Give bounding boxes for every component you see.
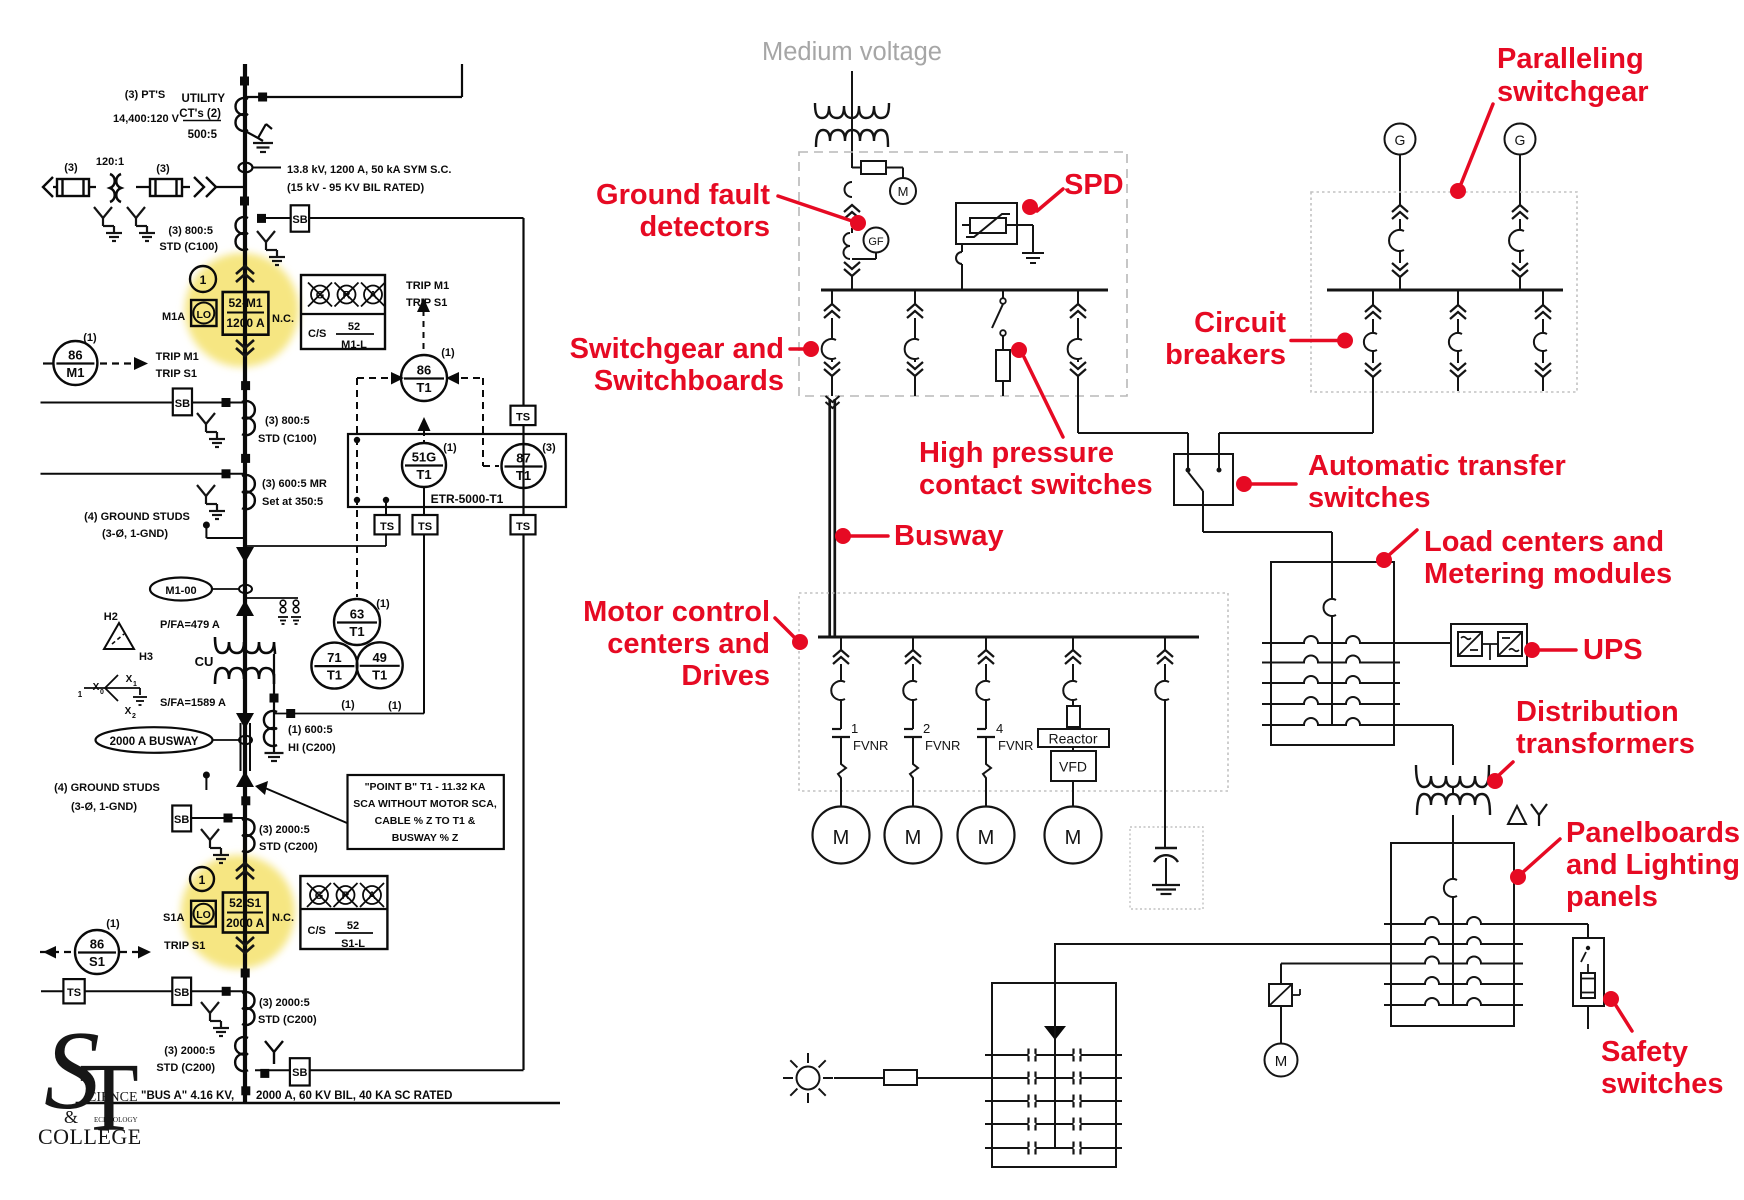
svg-text:0: 0 <box>100 689 104 696</box>
svg-text:T1: T1 <box>327 668 342 683</box>
svg-text:1: 1 <box>200 273 207 287</box>
svg-text:Busway: Busway <box>894 520 1004 552</box>
svg-text:R: R <box>343 290 351 302</box>
svg-text:4: 4 <box>996 721 1003 736</box>
svg-text:TS: TS <box>380 521 394 533</box>
svg-text:(1): (1) <box>443 442 457 454</box>
svg-text:Set at 350:5: Set at 350:5 <box>262 496 323 508</box>
svg-text:63: 63 <box>350 607 364 622</box>
svg-text:GF: GF <box>868 236 884 248</box>
svg-text:M1-L: M1-L <box>341 339 367 351</box>
svg-text:panels: panels <box>1566 881 1658 913</box>
svg-text:52: 52 <box>347 920 359 932</box>
svg-text:1: 1 <box>199 873 206 887</box>
svg-text:S1A: S1A <box>163 912 184 924</box>
svg-text:M: M <box>1065 827 1082 849</box>
svg-text:2000 A BUSWAY: 2000 A BUSWAY <box>110 736 199 748</box>
svg-text:M: M <box>978 827 995 849</box>
svg-text:Metering modules: Metering modules <box>1424 558 1672 590</box>
svg-text:Ground fault: Ground fault <box>596 179 770 211</box>
svg-text:87: 87 <box>516 451 530 466</box>
svg-text:Motor control: Motor control <box>583 596 770 628</box>
svg-text:(3) 2000:5: (3) 2000:5 <box>259 997 310 1009</box>
svg-text:(3): (3) <box>64 162 78 174</box>
svg-text:M1: M1 <box>66 365 84 380</box>
svg-text:(3) 800:5: (3) 800:5 <box>265 415 310 427</box>
svg-text:ECHNOLOGY: ECHNOLOGY <box>94 1116 138 1124</box>
svg-text:1: 1 <box>133 681 137 688</box>
svg-text:LO: LO <box>197 309 212 321</box>
svg-text:Paralleling: Paralleling <box>1497 43 1644 75</box>
svg-text:ETR-5000-T1: ETR-5000-T1 <box>431 492 504 506</box>
svg-text:Reactor: Reactor <box>1048 731 1097 747</box>
svg-text:M1-00: M1-00 <box>165 585 196 597</box>
svg-text:(3) 2000:5: (3) 2000:5 <box>164 1045 215 1057</box>
svg-text:SCA WITHOUT MOTOR SCA,: SCA WITHOUT MOTOR SCA, <box>353 798 497 810</box>
svg-text:(3): (3) <box>156 163 170 175</box>
svg-text:Medium voltage: Medium voltage <box>762 38 942 66</box>
svg-text:UTILITY: UTILITY <box>182 93 226 105</box>
svg-text:High pressure: High pressure <box>919 437 1114 469</box>
svg-text:T1: T1 <box>372 667 387 682</box>
svg-text:Load centers and: Load centers and <box>1424 526 1664 558</box>
svg-text:71: 71 <box>327 650 341 665</box>
svg-text:TRIP M1: TRIP M1 <box>406 280 449 292</box>
svg-text:(3-Ø, 1-GND): (3-Ø, 1-GND) <box>71 801 137 813</box>
svg-text:Switchboards: Switchboards <box>594 365 784 397</box>
svg-text:(3-Ø, 1-GND): (3-Ø, 1-GND) <box>102 528 168 540</box>
svg-text:switches: switches <box>1308 482 1431 514</box>
svg-text:CABLE % Z TO T1 &: CABLE % Z TO T1 & <box>375 815 476 827</box>
svg-text:2: 2 <box>923 721 930 736</box>
svg-text:1: 1 <box>78 690 83 699</box>
svg-text:P/FA=479 A: P/FA=479 A <box>160 619 220 631</box>
svg-text:51G: 51G <box>412 450 437 465</box>
svg-text:FVNR: FVNR <box>853 738 888 753</box>
svg-text:SB: SB <box>174 814 189 826</box>
svg-text:STD (C200): STD (C200) <box>156 1062 215 1074</box>
svg-text:X: X <box>126 674 133 685</box>
svg-text:M: M <box>905 827 922 849</box>
svg-text:Safety: Safety <box>1601 1036 1688 1068</box>
svg-text:1: 1 <box>851 721 858 736</box>
svg-text:500:5: 500:5 <box>188 129 218 141</box>
svg-text:S1-L: S1-L <box>341 938 365 950</box>
svg-text:transformers: transformers <box>1516 728 1695 760</box>
svg-text:TRIP S1: TRIP S1 <box>156 368 197 380</box>
svg-text:G: G <box>316 290 325 302</box>
svg-text:X: X <box>125 706 132 717</box>
svg-text:52: 52 <box>348 321 360 333</box>
svg-text:T1: T1 <box>416 467 431 482</box>
svg-text:H2: H2 <box>104 611 118 623</box>
svg-text:M: M <box>833 827 850 849</box>
svg-text:N.C.: N.C. <box>272 313 294 325</box>
svg-text:86: 86 <box>417 363 431 378</box>
svg-text:C/S: C/S <box>308 328 326 340</box>
svg-text:SPD: SPD <box>1064 169 1124 201</box>
svg-text:S/FA=1589 A: S/FA=1589 A <box>160 697 226 709</box>
svg-text:(15 kV - 95 KV BIL RATED): (15 kV - 95 KV BIL RATED) <box>287 182 424 194</box>
svg-text:A: A <box>369 290 377 302</box>
svg-text:2000 A: 2000 A <box>226 916 265 930</box>
svg-text:HI (C200): HI (C200) <box>288 742 336 754</box>
svg-text:TS: TS <box>67 987 81 999</box>
svg-text:G: G <box>315 890 324 902</box>
svg-text:(1): (1) <box>106 918 120 930</box>
svg-text:CIENCE: CIENCE <box>87 1090 138 1105</box>
svg-text:Distribution: Distribution <box>1516 696 1679 728</box>
svg-text:Circuit: Circuit <box>1194 307 1286 339</box>
svg-text:A: A <box>368 890 376 902</box>
svg-text:SB: SB <box>175 398 190 410</box>
svg-text:14,400:120 V: 14,400:120 V <box>113 113 180 125</box>
svg-text:TS: TS <box>418 521 432 533</box>
svg-text:(4) GROUND STUDS: (4) GROUND STUDS <box>84 511 190 523</box>
svg-text:(1): (1) <box>388 700 402 712</box>
svg-text:switches: switches <box>1601 1068 1724 1100</box>
svg-text:N.C.: N.C. <box>272 912 294 924</box>
svg-text:M: M <box>898 184 909 199</box>
svg-text:STD (C100): STD (C100) <box>159 241 218 253</box>
svg-text:UPS: UPS <box>1583 634 1643 666</box>
svg-text:TRIP M1: TRIP M1 <box>156 351 199 363</box>
svg-text:M: M <box>1275 1053 1288 1070</box>
svg-text:(3) 600:5 MR: (3) 600:5 MR <box>262 478 327 490</box>
svg-text:86: 86 <box>90 937 104 952</box>
svg-text:S1: S1 <box>89 954 105 969</box>
svg-text:M1A: M1A <box>162 311 185 323</box>
svg-text:T1: T1 <box>516 468 531 483</box>
svg-text:FVNR: FVNR <box>998 738 1033 753</box>
svg-text:(4) GROUND STUDS: (4) GROUND STUDS <box>54 782 160 794</box>
svg-text:Switchgear and: Switchgear and <box>570 333 784 365</box>
svg-text:(3) 2000:5: (3) 2000:5 <box>259 824 310 836</box>
svg-text:SB: SB <box>174 987 189 999</box>
svg-text:R: R <box>342 890 350 902</box>
svg-text:STD (C100): STD (C100) <box>258 433 317 445</box>
svg-text:H3: H3 <box>139 651 153 663</box>
svg-text:STD (C200): STD (C200) <box>259 841 318 853</box>
svg-text:T1: T1 <box>349 624 364 639</box>
svg-text:(1): (1) <box>376 598 390 610</box>
svg-text:"POINT B" T1 - 11.32 KA: "POINT B" T1 - 11.32 KA <box>365 781 486 793</box>
svg-text:Drives: Drives <box>681 660 770 692</box>
svg-text:G: G <box>1515 132 1526 148</box>
svg-text:Panelboards: Panelboards <box>1566 817 1740 849</box>
svg-text:Automatic transfer: Automatic transfer <box>1308 450 1566 482</box>
svg-text:C/S: C/S <box>308 925 326 937</box>
svg-text:switchgear: switchgear <box>1497 76 1649 108</box>
svg-text:(3) 800:5: (3) 800:5 <box>168 225 213 237</box>
svg-text:"BUS A" 4.16 KV,: "BUS A" 4.16 KV, <box>141 1090 234 1102</box>
svg-text:1200 A: 1200 A <box>226 316 265 330</box>
svg-text:(3): (3) <box>542 442 556 454</box>
svg-text:CU: CU <box>195 654 214 669</box>
svg-text:TRIP S1: TRIP S1 <box>164 940 205 952</box>
svg-text:FVNR: FVNR <box>925 738 960 753</box>
svg-text:52-S1: 52-S1 <box>229 896 261 910</box>
svg-text:(3) PT'S: (3) PT'S <box>125 89 166 101</box>
svg-text:2: 2 <box>132 713 136 720</box>
svg-text:BUSWAY % Z: BUSWAY % Z <box>392 832 459 844</box>
svg-text:VFD: VFD <box>1059 759 1087 775</box>
svg-text:(1): (1) <box>441 347 455 359</box>
svg-text:LO: LO <box>196 909 211 921</box>
svg-text:86: 86 <box>68 348 82 363</box>
svg-text:SB: SB <box>292 214 307 226</box>
svg-text:detectors: detectors <box>639 211 770 243</box>
svg-text:and Lighting: and Lighting <box>1566 849 1740 881</box>
svg-text:13.8 kV, 1200 A, 50 kA SYM S.C: 13.8 kV, 1200 A, 50 kA SYM S.C. <box>287 164 451 176</box>
svg-text:COLLEGE: COLLEGE <box>38 1124 142 1149</box>
svg-text:breakers: breakers <box>1165 339 1286 371</box>
svg-text:(1): (1) <box>341 699 355 711</box>
svg-text:STD (C200): STD (C200) <box>258 1014 317 1026</box>
svg-text:2000 A, 60 KV BIL, 40 KA SC RA: 2000 A, 60 KV BIL, 40 KA SC RATED <box>256 1090 452 1102</box>
svg-text:contact switches: contact switches <box>919 469 1153 501</box>
svg-text:120:1: 120:1 <box>96 156 124 168</box>
svg-text:T1: T1 <box>416 380 431 395</box>
svg-text:(1) 600:5: (1) 600:5 <box>288 724 333 736</box>
svg-text:SB: SB <box>292 1067 307 1079</box>
svg-text:49: 49 <box>372 650 386 665</box>
svg-text:CT's (2): CT's (2) <box>179 108 221 120</box>
svg-text:52-M1: 52-M1 <box>228 296 262 310</box>
svg-text:TS: TS <box>516 521 530 533</box>
svg-text:centers and: centers and <box>607 628 770 660</box>
svg-text:TS: TS <box>516 412 530 424</box>
svg-text:G: G <box>1395 132 1406 148</box>
